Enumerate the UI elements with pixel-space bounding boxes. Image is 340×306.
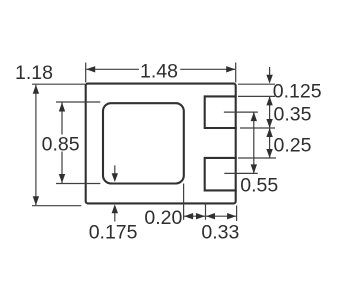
package body outline: [86, 84, 236, 204]
dim 1.48 left arrowhead: [86, 66, 95, 72]
svg-text:0.25: 0.25: [274, 135, 312, 157]
svg-text:0.85: 0.85: [42, 133, 80, 155]
dim 0.85 extension line top: [56, 101, 100, 103]
dim 0.55 top arrowhead: [251, 112, 257, 121]
dim 0.175 lower arrow (points up to body bottom edge): [114, 213, 116, 222]
svg-text:1.18: 1.18: [15, 62, 53, 84]
terminal notch 1 (upper right): [205, 96, 237, 128]
dim 0.55 bottom arrowhead: [251, 164, 257, 173]
dim 0.25 dimension line: [269, 128, 271, 158]
svg-text:0.20: 0.20: [144, 207, 182, 229]
dim 0.33 dimension line: [206, 215, 237, 217]
notch2 top extension line: [238, 157, 276, 159]
dim 0.125 arrow (points down to top edge): [269, 67, 271, 76]
dim 0.85 top arrowhead: [59, 103, 65, 112]
dim 0.55 dimension line: [253, 112, 255, 173]
dim 1.48 dimension line (broken for label): [86, 68, 139, 70]
notch2 center leader line: [224, 172, 257, 174]
svg-text:0.55: 0.55: [240, 175, 278, 197]
dim 0.33 right arrowhead: [227, 213, 236, 219]
svg-text:1.48: 1.48: [140, 60, 178, 82]
dim 1.18 top arrowhead: [33, 85, 39, 94]
svg-text:0.33: 0.33: [201, 222, 239, 244]
dim 0.85 label: [40, 135, 84, 152]
dim 0.20 left extension line (inner body right edge): [183, 184, 185, 220]
notch1 bottom extension line: [240, 127, 275, 129]
dim 1.48 right arrowhead: [226, 66, 235, 72]
inner body (rounded square): [103, 103, 184, 183]
dim 0.25 bottom arrowhead: [266, 149, 272, 158]
dim 0.35 dimension line: [269, 96, 271, 128]
dim 0.125 top-edge extension line right: [238, 83, 275, 85]
dim 1.48 extension line left: [85, 63, 87, 83]
notch1 top extension line: [238, 95, 275, 97]
dim 0.20/0.33 shared extension line (notch left edge): [205, 204, 207, 220]
dim 1.48 extension line right: [235, 63, 237, 83]
dim 0.20 dimension line: [184, 215, 206, 217]
dim 0.25 top arrowhead: [266, 128, 272, 137]
dim 0.35 bottom arrowhead: [266, 119, 272, 128]
notch1 center leader line: [224, 111, 258, 113]
dim 0.85 dimension line: [61, 103, 63, 184]
svg-text:0.35: 0.35: [274, 104, 312, 126]
dim 1.18 extension line bottom: [32, 205, 81, 207]
dim 0.85 bottom arrowhead: [59, 174, 65, 183]
dim 0.33 right extension line (body right edge): [236, 206, 238, 222]
dim 1.18 dimension line: [35, 85, 37, 206]
dim 0.35 top arrowhead: [266, 96, 272, 105]
dim 0.20 left arrowhead: [184, 213, 193, 219]
terminal notch 2 (lower right): [205, 158, 237, 191]
dim 0.20 right arrowhead: [196, 213, 205, 219]
dim 0.33 left arrowhead: [206, 213, 215, 219]
svg-text:0.125: 0.125: [273, 80, 322, 102]
dim 1.18 bottom arrowhead: [33, 196, 39, 205]
dim 1.18 extension line top: [32, 83, 85, 85]
svg-text:0.175: 0.175: [89, 222, 138, 244]
dim 0.85 extension line bottom: [56, 183, 100, 185]
dim 0.175 upper arrow (points down to inner body bottom edge): [114, 165, 116, 174]
